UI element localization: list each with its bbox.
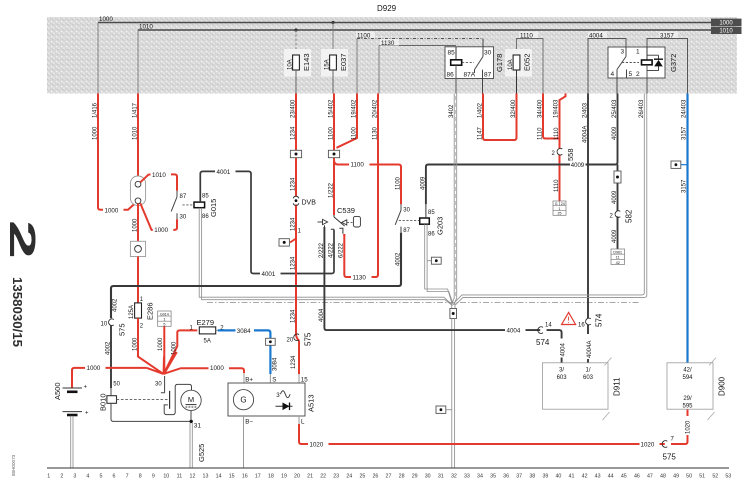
wire 4001 G015 to C539 pin4	[200, 168, 334, 278]
svg-text:S: S	[272, 376, 276, 383]
wire 1000 E286 to fan	[133, 318, 164, 374]
svg-text:4009: 4009	[612, 229, 618, 243]
svg-text:50: 50	[686, 474, 692, 480]
svg-text:35: 35	[490, 474, 496, 480]
svg-text:51: 51	[699, 474, 705, 480]
switch C539	[318, 206, 361, 258]
svg-text:575: 575	[304, 332, 313, 346]
svg-text:17: 17	[255, 474, 261, 480]
svg-text:87: 87	[180, 194, 187, 200]
svg-text:558: 558	[566, 148, 575, 161]
svg-text:4009: 4009	[612, 126, 618, 140]
svg-text:3/: 3/	[559, 367, 564, 373]
svg-text:4: 4	[86, 474, 89, 480]
svg-text:1110: 1110	[554, 127, 560, 140]
svg-text:M: M	[188, 395, 194, 404]
svg-text:10: 10	[163, 474, 169, 480]
svg-text:3084: 3084	[272, 357, 278, 371]
corner code	[11, 454, 16, 476]
terminal box on G203 ground	[427, 257, 441, 264]
svg-text:6/222: 6/222	[338, 242, 344, 258]
svg-text:3: 3	[276, 392, 280, 399]
svg-text:34/400: 34/400	[537, 99, 543, 118]
svg-text:G178: G178	[495, 54, 504, 72]
svg-text:11: 11	[616, 256, 620, 260]
svg-text:42/: 42/	[683, 367, 692, 373]
svg-text:+: +	[85, 411, 89, 417]
svg-text:E052: E052	[523, 53, 532, 71]
connector 16/574	[578, 313, 604, 328]
svg-text:43: 43	[595, 474, 601, 480]
G015 switch contacts 87/30	[171, 191, 187, 221]
svg-text:87A: 87A	[464, 72, 476, 79]
terminal box G014	[158, 311, 171, 327]
svg-text:4009: 4009	[571, 163, 585, 169]
svg-text:29/: 29/	[683, 396, 692, 402]
svg-text:53: 53	[725, 474, 731, 480]
svg-text:27: 27	[386, 474, 392, 480]
svg-text:3: 3	[621, 49, 625, 56]
wire 4009 bus crossing patch	[552, 164, 568, 166]
terminal box on ground lead	[436, 406, 452, 413]
svg-text:45: 45	[621, 474, 627, 480]
wire 3084 blue	[218, 327, 278, 374]
wire 1010 feed 1/417	[133, 94, 139, 182]
fuse E143 lower lead	[295, 70, 297, 94]
svg-text:7: 7	[671, 436, 675, 442]
svg-text:1000: 1000	[105, 207, 119, 214]
svg-text:1000: 1000	[93, 126, 99, 140]
svg-text:1000: 1000	[719, 21, 733, 27]
fuse E052	[505, 49, 532, 94]
terminal box on 3157	[671, 161, 686, 168]
svg-text:D911: D911	[613, 377, 622, 396]
wire 1100 15/402 column	[329, 94, 402, 216]
wire B- to rail	[243, 416, 245, 468]
svg-text:1010: 1010	[719, 29, 733, 35]
svg-text:575: 575	[118, 323, 127, 336]
connector housing D900	[667, 358, 727, 421]
wire 1000 G014 to fan	[158, 326, 164, 374]
svg-text:1000: 1000	[210, 365, 224, 372]
wire bus 1000	[98, 16, 711, 23]
terminal box D961	[611, 249, 625, 265]
svg-text:6: 6	[113, 474, 116, 480]
svg-text:48: 48	[660, 474, 666, 480]
svg-text:42: 42	[616, 261, 620, 265]
svg-text:87: 87	[403, 228, 410, 234]
wire 4002 to B010	[105, 326, 120, 389]
svg-text:1020: 1020	[641, 442, 655, 449]
svg-text:4004: 4004	[589, 33, 603, 40]
svg-text:1000: 1000	[99, 16, 113, 23]
fuse E143	[284, 49, 311, 77]
svg-text:10A: 10A	[508, 59, 514, 70]
wire 1000 oval down to clamp	[133, 204, 139, 242]
svg-text:D929: D929	[377, 4, 397, 13]
svg-text:37: 37	[516, 474, 522, 480]
svg-text:41: 41	[569, 474, 575, 480]
svg-text:20/402: 20/402	[372, 99, 378, 118]
svg-text:125A: 125A	[129, 305, 135, 319]
wire 1110 34/400 drop	[537, 94, 559, 141]
svg-text:1234: 1234	[291, 256, 297, 270]
svg-text:42: 42	[582, 474, 588, 480]
battery A500	[53, 364, 147, 468]
svg-text:50: 50	[113, 382, 120, 388]
wire 1000 E279 to fan	[164, 330, 197, 373]
svg-text:15/402: 15/402	[329, 99, 335, 118]
side terminal on 1234	[279, 229, 302, 247]
svg-text:28: 28	[399, 474, 405, 480]
svg-text:B−: B−	[245, 419, 253, 426]
connector box on 1100	[328, 150, 339, 157]
svg-text:E279: E279	[197, 318, 215, 327]
wire 3157 blue 24/403	[682, 94, 688, 363]
svg-text:13: 13	[203, 474, 209, 480]
svg-text:1: 1	[298, 229, 302, 235]
svg-text:1234: 1234	[291, 177, 297, 191]
svg-text:B+: B+	[245, 376, 253, 383]
svg-text:46: 46	[634, 474, 640, 480]
connector 7/575	[662, 436, 676, 461]
connector oval junction	[130, 176, 145, 206]
svg-text:594: 594	[682, 375, 693, 381]
svg-text:4002: 4002	[105, 341, 111, 355]
alternator A513	[228, 376, 316, 425]
fuse E037	[321, 49, 348, 77]
wire 1234 23/400 column	[291, 94, 299, 375]
svg-text:3: 3	[73, 474, 76, 480]
svg-text:2: 2	[636, 71, 640, 78]
wire 1100 19/402 jog	[337, 94, 358, 148]
svg-text:1/417: 1/417	[133, 102, 139, 118]
svg-text:52: 52	[712, 474, 718, 480]
starter motor M	[181, 390, 202, 429]
svg-text:5: 5	[163, 323, 165, 327]
starter solenoid contact	[161, 376, 192, 415]
svg-text:26/403: 26/403	[639, 99, 645, 118]
svg-text:1020: 1020	[310, 442, 324, 449]
svg-text:4001: 4001	[262, 271, 276, 278]
wire 3157 inside band	[647, 32, 688, 94]
svg-text:2: 2	[2, 220, 43, 259]
connector box on 4009	[614, 171, 621, 183]
svg-text:86: 86	[447, 72, 455, 79]
svg-text:19: 19	[281, 474, 287, 480]
svg-text:1000: 1000	[87, 365, 101, 372]
relay G015 coil	[183, 194, 219, 221]
svg-text:4004A: 4004A	[587, 341, 593, 358]
svg-text:3084: 3084	[237, 328, 251, 335]
wire 4004 inside band	[588, 32, 626, 94]
svg-text:G: G	[240, 396, 246, 405]
svg-text:DVB: DVB	[302, 200, 317, 207]
svg-text:C539: C539	[337, 206, 355, 215]
wire 6/222 red stub	[343, 234, 345, 236]
svg-text:33: 33	[464, 474, 470, 480]
svg-text:5: 5	[629, 71, 633, 78]
svg-text:G372: G372	[669, 54, 678, 72]
tag box 1010	[711, 27, 742, 35]
svg-text:1: 1	[163, 317, 165, 321]
svg-text:8: 8	[139, 474, 142, 480]
svg-text:603: 603	[557, 375, 568, 381]
svg-text:12: 12	[190, 474, 196, 480]
svg-text:18: 18	[268, 474, 274, 480]
svg-text:E286: E286	[146, 302, 155, 320]
svg-text:1130: 1130	[381, 40, 395, 47]
svg-text:575: 575	[663, 453, 677, 462]
svg-text:26: 26	[372, 474, 378, 480]
svg-text:1020: 1020	[685, 420, 691, 434]
fuse E279	[190, 318, 225, 344]
svg-text:1234: 1234	[291, 217, 297, 231]
svg-text:B010: B010	[99, 393, 108, 411]
wire drop 1000 inside band	[97, 23, 99, 94]
svg-text:88H00073: 88H00073	[11, 454, 16, 476]
svg-text:16: 16	[242, 474, 248, 480]
ground G525	[190, 423, 206, 468]
svg-text:15: 15	[301, 376, 308, 383]
svg-text:D961: D961	[613, 250, 622, 254]
connector 10/575	[101, 319, 127, 336]
sidebar document number	[10, 277, 24, 347]
svg-text:30: 30	[155, 382, 162, 388]
svg-text:G015: G015	[209, 199, 218, 217]
wire 4004 thick to D911	[319, 227, 567, 363]
ignition switch B010	[99, 388, 192, 421]
terminal box on 3084	[266, 338, 276, 345]
svg-text:A500: A500	[53, 382, 62, 400]
svg-text:44: 44	[608, 474, 614, 480]
svg-text:22: 22	[320, 474, 326, 480]
wire 1147 G178-87 U-link	[477, 94, 517, 141]
clamp connector box	[130, 241, 145, 256]
svg-text:15A: 15A	[324, 59, 330, 70]
svg-text:10: 10	[101, 322, 108, 328]
svg-text:4009: 4009	[420, 176, 426, 190]
svg-text:5: 5	[100, 474, 103, 480]
svg-text:1100: 1100	[329, 126, 335, 140]
svg-text:36: 36	[503, 474, 509, 480]
ground junction and lead to rail	[450, 303, 457, 468]
sidebar figure number 2	[2, 220, 43, 259]
warning triangle	[562, 312, 576, 324]
svg-text:49: 49	[673, 474, 679, 480]
svg-text:G203: G203	[436, 217, 445, 235]
wire 1000 clamp to E286	[138, 257, 144, 303]
svg-text:574: 574	[536, 338, 550, 347]
svg-text:34: 34	[477, 474, 483, 480]
svg-text:2: 2	[60, 474, 63, 480]
junction dot bus1010/E143	[294, 28, 297, 55]
ground wire G015-86 to junction	[199, 208, 452, 306]
svg-text:1010: 1010	[152, 172, 166, 179]
svg-text:24: 24	[346, 474, 352, 480]
ground wire G203-86	[425, 224, 454, 305]
svg-text:582: 582	[625, 209, 634, 223]
wire 1000 fan junction	[147, 352, 299, 388]
svg-text:38: 38	[529, 474, 535, 480]
wire 4004A 2/403 column	[582, 94, 593, 363]
svg-text:1/: 1/	[585, 367, 590, 373]
svg-text:3157: 3157	[682, 126, 688, 140]
svg-text:85: 85	[202, 194, 209, 200]
wire 1130 inside band	[379, 39, 456, 94]
svg-text:25/403: 25/403	[612, 99, 618, 118]
svg-text:2: 2	[552, 151, 556, 157]
svg-text:1147: 1147	[477, 126, 483, 140]
svg-text:E143: E143	[302, 53, 311, 71]
svg-text:16: 16	[578, 323, 585, 329]
svg-text:4004A: 4004A	[582, 126, 588, 143]
svg-text:23: 23	[333, 474, 339, 480]
svg-text:G: G	[555, 202, 558, 206]
svg-text:603: 603	[583, 375, 594, 381]
wire 1000 from switch 30 to oval	[140, 203, 177, 234]
svg-text:G525: G525	[197, 444, 206, 462]
wire 1100 inside band	[356, 32, 483, 94]
svg-text:24: 24	[561, 202, 565, 206]
svg-text:4002: 4002	[395, 252, 401, 266]
svg-text:31: 31	[194, 423, 202, 430]
svg-text:1100: 1100	[357, 33, 371, 40]
relay G203	[395, 204, 444, 237]
svg-text:32/400: 32/400	[511, 99, 517, 118]
wire drop 1010 inside band	[137, 30, 139, 94]
svg-text:4/222: 4/222	[329, 242, 335, 258]
svg-text:1000: 1000	[133, 337, 139, 351]
wire 1000 battery feed 1/416	[93, 94, 136, 215]
svg-text:574: 574	[595, 313, 604, 327]
svg-text:85: 85	[428, 210, 435, 216]
svg-text:1/402: 1/402	[477, 102, 483, 118]
svg-text:4004: 4004	[561, 342, 567, 356]
connector 2/582	[610, 209, 634, 223]
ground wire 3402 G178-86	[449, 94, 457, 305]
svg-text:2: 2	[610, 214, 614, 220]
connector 14/574	[536, 322, 552, 347]
svg-text:20: 20	[294, 474, 300, 480]
wire 1110 inside band	[517, 32, 544, 94]
connector box on 1234	[290, 150, 301, 157]
svg-text:1130: 1130	[353, 274, 367, 281]
wire 4009 bus	[420, 94, 618, 205]
svg-text:3402: 3402	[449, 104, 455, 118]
svg-text:1/222: 1/222	[329, 182, 335, 198]
svg-text:10A: 10A	[287, 59, 293, 70]
svg-text:85: 85	[448, 50, 456, 57]
svg-text:87: 87	[484, 72, 492, 79]
svg-text:1010: 1010	[133, 126, 139, 140]
svg-text:2/403: 2/403	[582, 102, 588, 118]
svg-text:1234: 1234	[291, 309, 297, 323]
svg-text:L: L	[301, 419, 305, 426]
wire bus 1010	[138, 24, 711, 31]
svg-text:1100: 1100	[395, 176, 401, 190]
svg-text:1: 1	[636, 49, 640, 56]
svg-text:595: 595	[682, 403, 693, 409]
svg-text:24/403: 24/403	[682, 99, 688, 118]
screened line	[207, 302, 640, 304]
wire 4002 bus	[111, 233, 401, 318]
svg-text:86: 86	[428, 232, 435, 238]
wire 1020 L to D900	[299, 409, 691, 449]
svg-text:5A: 5A	[204, 339, 211, 345]
svg-text:7: 7	[126, 474, 129, 480]
svg-text:4004: 4004	[319, 308, 325, 322]
svg-text:D900: D900	[718, 376, 727, 396]
ruler scale 1-53	[47, 474, 731, 480]
svg-text:21: 21	[307, 474, 313, 480]
svg-text:1234: 1234	[291, 126, 297, 140]
svg-text:1/416: 1/416	[93, 102, 99, 118]
wire 1130 20/402 column	[344, 94, 378, 282]
ground wire 26/403 G372-2	[454, 94, 647, 305]
svg-text:1234: 1234	[291, 355, 297, 369]
svg-text:E037: E037	[339, 53, 348, 71]
svg-text:1130: 1130	[372, 126, 378, 140]
svg-text:31: 31	[438, 474, 444, 480]
svg-text:11: 11	[177, 474, 183, 480]
svg-text:29: 29	[412, 474, 418, 480]
svg-text:4001: 4001	[217, 169, 231, 176]
svg-text:1100: 1100	[351, 126, 357, 140]
relay G178	[445, 39, 504, 94]
junction dot bus1000/E037	[331, 21, 334, 55]
svg-text:+: +	[84, 385, 88, 391]
svg-text:9: 9	[152, 474, 155, 480]
svg-text:4: 4	[611, 71, 615, 78]
svg-text:40: 40	[555, 474, 561, 480]
svg-text:3157: 3157	[682, 179, 688, 193]
svg-text:30: 30	[425, 474, 431, 480]
connector 20/575	[287, 332, 313, 369]
svg-text:32: 32	[451, 474, 457, 480]
svg-text:15: 15	[229, 474, 235, 480]
svg-text:1358030/15: 1358030/15	[10, 277, 24, 347]
svg-text:1000: 1000	[133, 218, 139, 232]
wire 1010 to G015 switch	[140, 171, 177, 191]
svg-text:19/402: 19/402	[351, 99, 357, 118]
terminal grid box on 1110	[553, 201, 566, 216]
svg-text:39: 39	[542, 474, 548, 480]
svg-text:2: 2	[140, 324, 144, 330]
svg-text:25: 25	[359, 474, 365, 480]
svg-text:1: 1	[559, 207, 561, 211]
fuse E286	[129, 302, 154, 329]
wire 1110 19/403 to 558	[554, 94, 566, 202]
svg-text:30: 30	[403, 208, 410, 214]
svg-text:1110: 1110	[537, 127, 543, 140]
svg-text:30: 30	[484, 50, 492, 57]
central unit band D929	[47, 4, 737, 94]
ground rail	[47, 467, 729, 469]
svg-text:G014: G014	[160, 312, 169, 316]
svg-text:1: 1	[140, 297, 144, 303]
svg-text:47: 47	[647, 474, 653, 480]
svg-text:14: 14	[545, 322, 552, 328]
svg-text:1: 1	[47, 474, 50, 480]
wire 4009 to D961	[612, 183, 618, 249]
svg-text:23/400: 23/400	[291, 99, 297, 118]
svg-text:4009: 4009	[612, 190, 618, 204]
relay G372	[608, 47, 678, 94]
connector housing D911	[543, 358, 622, 421]
svg-text:4004: 4004	[507, 328, 521, 335]
svg-text:1000: 1000	[158, 337, 164, 351]
